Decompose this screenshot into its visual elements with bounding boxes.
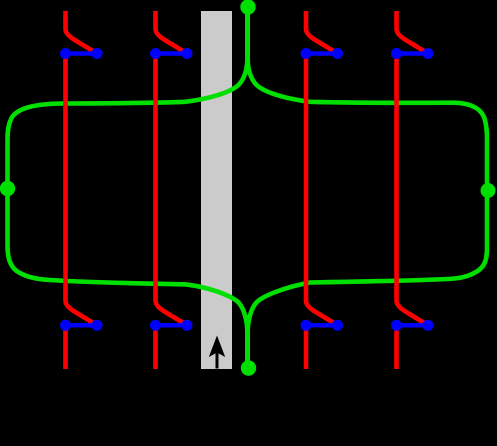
blue link bottom 2 — [150, 320, 193, 331]
red field line 1 middle — [66, 54, 97, 325]
red field line 4 top stub — [397, 11, 428, 53]
blue link bottom 3 — [301, 320, 344, 331]
red field line 2 top stub — [156, 11, 187, 53]
blue link top 4 — [391, 48, 434, 59]
red field line 4 middle — [397, 54, 428, 325]
red field line 3 bottom stub — [304, 326, 309, 370]
green node bottom — [241, 360, 256, 375]
green node left — [0, 181, 15, 196]
red field line 4 bottom stub — [394, 326, 399, 370]
red field line 2 middle — [156, 54, 187, 325]
red field line 3 top stub — [306, 11, 337, 53]
green node right — [481, 183, 496, 198]
green loop right half — [248, 4, 487, 366]
blue link top 1 — [60, 48, 103, 59]
green loop left half — [8, 4, 248, 366]
red field line 2 bottom stub — [153, 326, 158, 370]
blue link bottom 4 — [391, 320, 434, 331]
blue link top 3 — [301, 48, 344, 59]
red field line 3 middle — [306, 54, 337, 325]
blue link top 2 — [150, 48, 193, 59]
blue link bottom 1 — [60, 320, 103, 331]
green node top — [240, 0, 255, 15]
current arrow — [209, 336, 225, 369]
red field line 1 top stub — [66, 11, 97, 53]
red field line 1 bottom stub — [63, 326, 68, 370]
conductor bar — [201, 11, 232, 369]
